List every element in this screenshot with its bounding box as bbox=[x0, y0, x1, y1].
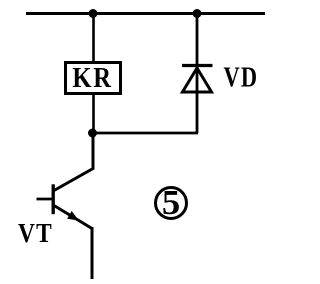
node 5: circled figure number circle bbox=[156, 188, 187, 219]
wire: KR box bottom to junction bbox=[92, 94, 95, 133]
wire: rail to KR box top bbox=[92, 14, 95, 63]
diode VD cathode bar bbox=[182, 64, 213, 67]
node: junction dot right on rail bbox=[193, 9, 202, 18]
wire: top supply rail bbox=[26, 12, 265, 15]
wire: diode branch vertical (rail through diode to junction wire) bbox=[196, 12, 199, 133]
svg-text:KR: KR bbox=[72, 61, 112, 93]
svg-text:VT: VT bbox=[18, 217, 53, 248]
relay coil KR box bbox=[66, 63, 121, 94]
diode VD triangle bbox=[183, 68, 212, 92]
node: junction dot below KR bbox=[88, 129, 97, 138]
transistor VT base lead bbox=[37, 198, 54, 201]
node: junction dot left on rail bbox=[89, 9, 98, 18]
transistor VT collector lead bbox=[54, 133, 93, 191]
svg-text:5: 5 bbox=[162, 183, 180, 222]
transistor VT emitter lead bbox=[54, 206, 92, 229]
wire: emitter down lead bbox=[91, 227, 94, 279]
transistor VT emitter arrowhead bbox=[67, 211, 79, 221]
svg-text:VD: VD bbox=[224, 62, 259, 93]
transistor VT base bar bbox=[52, 184, 55, 214]
wire: horizontal junction to diode branch bbox=[93, 132, 199, 135]
